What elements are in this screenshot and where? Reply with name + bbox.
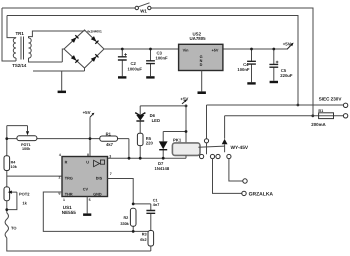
svg-text:TRG: TRG: [65, 177, 73, 181]
svg-text:DIS: DIS: [96, 177, 103, 181]
svg-text:100nF: 100nF: [237, 67, 250, 72]
svg-text:7: 7: [110, 172, 112, 176]
svg-text:GRZALKA: GRZALKA: [249, 192, 274, 198]
svg-text:1k: 1k: [22, 201, 27, 206]
svg-text:SIEC 230V: SIEC 230V: [319, 97, 343, 102]
svg-text:1: 1: [63, 198, 65, 202]
svg-text:TS2/14: TS2/14: [12, 63, 27, 68]
svg-text:4x1N4001: 4x1N4001: [87, 29, 102, 33]
svg-text:1000uF: 1000uF: [128, 66, 143, 71]
svg-text:D: D: [200, 63, 203, 67]
svg-text:4n7: 4n7: [153, 203, 160, 207]
svg-text:LED: LED: [152, 118, 160, 123]
svg-text:C1: C1: [153, 198, 158, 202]
svg-text:10k: 10k: [11, 165, 18, 169]
svg-text:Vin: Vin: [183, 49, 190, 53]
svg-text:R: R: [65, 161, 68, 165]
svg-text:100nF: 100nF: [156, 55, 169, 60]
svg-text:B1: B1: [318, 109, 323, 113]
svg-text:GND: GND: [93, 192, 102, 196]
svg-text:R1: R1: [106, 131, 112, 136]
svg-text:4: 4: [59, 153, 61, 157]
svg-text:TR1: TR1: [16, 31, 25, 36]
svg-text:R2: R2: [123, 216, 128, 220]
svg-text:WY-45V: WY-45V: [231, 145, 249, 151]
svg-text:3: 3: [109, 154, 111, 158]
svg-text:NE555: NE555: [62, 210, 76, 215]
svg-text:+5V: +5V: [212, 49, 219, 53]
svg-text:TO: TO: [11, 226, 16, 231]
svg-text:R3: R3: [142, 233, 147, 237]
svg-text:THR: THR: [65, 192, 73, 196]
svg-text:W1: W1: [140, 9, 147, 14]
svg-text:CV: CV: [83, 187, 89, 191]
svg-text:+5V: +5V: [83, 110, 91, 115]
svg-text:4k7: 4k7: [106, 142, 114, 147]
svg-text:100k: 100k: [22, 147, 31, 151]
svg-text:220: 220: [146, 141, 154, 146]
svg-text:200mA: 200mA: [311, 122, 326, 127]
svg-text:220uF: 220uF: [280, 73, 293, 78]
svg-text:6k2: 6k2: [140, 238, 146, 242]
svg-text:330k: 330k: [120, 222, 129, 226]
svg-text:U: U: [86, 161, 89, 165]
svg-text:2: 2: [58, 176, 60, 180]
svg-text:5: 5: [89, 198, 91, 202]
svg-text:PK1: PK1: [173, 138, 182, 143]
svg-text:+5V: +5V: [283, 41, 291, 46]
svg-text:UA7805: UA7805: [190, 36, 207, 41]
svg-text:8: 8: [87, 153, 89, 157]
svg-text:POT2: POT2: [19, 191, 30, 196]
svg-text:1N4148: 1N4148: [155, 166, 170, 171]
